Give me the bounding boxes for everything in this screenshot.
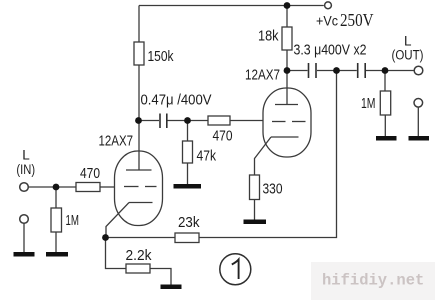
svg-text:250V: 250V	[340, 10, 374, 30]
svg-text:3.3 μ400V x2: 3.3 μ400V x2	[294, 42, 367, 59]
svg-text:0.47μ /400V: 0.47μ /400V	[141, 93, 212, 109]
svg-text:(IN): (IN)	[16, 162, 35, 177]
svg-text:L: L	[22, 148, 30, 163]
svg-text:23k: 23k	[178, 215, 200, 231]
svg-text:330: 330	[263, 182, 283, 198]
svg-text:1M: 1M	[66, 213, 80, 229]
svg-text:12AX7: 12AX7	[245, 68, 280, 84]
svg-text:hifidiy.net: hifidiy.net	[322, 272, 424, 290]
svg-text:L: L	[404, 34, 412, 49]
svg-text:12AX7: 12AX7	[99, 134, 134, 150]
svg-text:18k: 18k	[258, 29, 279, 45]
svg-text:2.2k: 2.2k	[126, 248, 153, 264]
svg-text:470: 470	[213, 129, 233, 145]
svg-text:470: 470	[80, 165, 100, 182]
svg-text:(OUT): (OUT)	[392, 48, 424, 63]
svg-text:150k: 150k	[148, 49, 175, 65]
svg-text:47k: 47k	[197, 149, 217, 165]
svg-text:1M: 1M	[361, 96, 376, 112]
svg-text:+Vc: +Vc	[316, 13, 338, 29]
